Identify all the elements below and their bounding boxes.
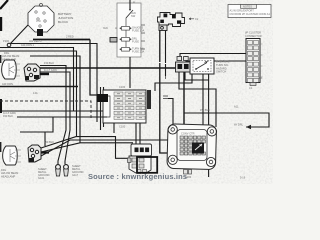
svg-text:440 ORN 1: 440 ORN 1: [21, 43, 35, 47]
notes box top right: [228, 5, 271, 18]
thick stub from lower headlamp connector: [41, 151, 49, 153]
wire DRL box to C100 right bar: [155, 74, 192, 91]
wire break mark: [157, 62, 162, 63]
svg-text:G101: G101: [38, 176, 45, 180]
svg-text:150 BLK: 150 BLK: [3, 114, 13, 118]
wire long y68 to big connector: [40, 68, 184, 138]
wire E y56: [30, 56, 80, 143]
wires C100 down to lamp check relay: [136, 123, 140, 144]
fuse block box: [110, 0, 145, 88]
svg-text:440 ORN: 440 ORN: [2, 82, 13, 86]
scan artifact left edge dash 3: [0, 99, 2, 113]
right side pins: [141, 25, 145, 49]
svg-text:FUSE: FUSE: [132, 39, 139, 43]
wire small connector to cluster y61: [186, 56, 246, 61]
wire from blob x159.8 down to big connector: [160, 31, 167, 154]
C100 bulkhead connector: [97, 85, 151, 129]
thick highlight rect on lamp check block: [137, 157, 157, 173]
bottom tabs: [137, 170, 141, 174]
wire small connector to cluster y55: [180, 54, 246, 57]
wire B y43.5: [11, 44, 97, 123]
svg-text:150 BLK: 150 BLK: [200, 108, 210, 112]
svg-text:HEADLAMP: HEADLAMP: [1, 174, 16, 178]
svg-text:2 RED: 2 RED: [66, 35, 74, 39]
svg-text:C2: C2: [195, 17, 199, 21]
fuse 3: [120, 46, 145, 53]
svg-text:A 30: A 30: [36, 20, 41, 23]
wire D y51: [0, 51, 77, 137]
headlamp upper connector: [24, 64, 40, 81]
wire y72: [40, 72, 70, 164]
headlamp upper: [2, 60, 20, 79]
headlamp lower connector: [28, 145, 41, 162]
svg-text:SW: SW: [131, 14, 136, 18]
wire from blob x165.5 down: [165, 31, 167, 77]
wires from small connector: [179, 72, 216, 127]
arrowhead: [246, 125, 251, 129]
big firewall connector: [167, 124, 217, 179]
svg-text:14A: 14A: [33, 91, 38, 95]
svg-text:A1 W/ DRL/EXPORT: A1 W/ DRL/EXPORT: [230, 8, 255, 12]
svg-text:G117: G117: [72, 173, 79, 177]
bottom stub joining long wire: [129, 57, 131, 88]
svg-text:Source : knwnrkgenius.ins: Source : knwnrkgenius.ins: [88, 172, 187, 181]
wire C y47.5: [0, 48, 74, 112]
svg-text:P100: P100: [3, 39, 10, 43]
wire below C100: [113, 123, 115, 133]
ground bolt right G117: [64, 165, 69, 176]
headlamp lower: [3, 146, 21, 165]
svg-text:BLOCK: BLOCK: [58, 20, 68, 24]
ignition switch: [126, 10, 133, 18]
hairpin wire loop left-mid: [17, 117, 107, 146]
svg-text:402 RED 2: 402 RED 2: [29, 39, 42, 43]
svg-text:FUSE 20A: FUSE 20A: [132, 49, 145, 53]
svg-text:A11: A11: [234, 105, 239, 109]
svg-text:SWITCH: SWITCH: [216, 70, 226, 74]
svg-text:CONNECTOR: CONNECTOR: [245, 34, 262, 38]
small connector under blob: [176, 57, 191, 73]
wire from DRL box x208.6 down: [208, 74, 210, 177]
wire A y40 thick: [33, 39, 90, 41]
svg-text:IGN: IGN: [103, 26, 108, 30]
scan artifact left edge dash 4: [0, 142, 1, 152]
connector symbol and wire to big connector top: [163, 76, 169, 99]
svg-text:W/ DRL: W/ DRL: [234, 123, 244, 127]
wire from DRL box x203 down: [202, 74, 204, 146]
fuse 2: [120, 36, 140, 43]
svg-text:CONV CTR: CONV CTR: [181, 132, 195, 136]
ground bolt left G101: [56, 165, 61, 176]
I/P cluster connector: [246, 39, 263, 91]
diag wires from lower headlamp connector: [41, 137, 128, 159]
svg-text:11 LT GRN: 11 LT GRN: [44, 68, 57, 72]
svg-text:150 BLK: 150 BLK: [44, 61, 54, 65]
thick wire y86: [0, 86, 78, 88]
svg-text:FUSE 10A: FUSE 10A: [132, 28, 145, 32]
scan artifact left edge dash 2: [0, 55, 1, 63]
svg-text:DRL/A DRL: DRL/A DRL: [216, 60, 230, 64]
svg-text:A: A: [133, 0, 135, 4]
svg-text:C100: C100: [119, 125, 126, 129]
svg-text:C100: C100: [119, 85, 126, 89]
u-turn wire to arrow: [216, 113, 269, 127]
connector P100: [7, 43, 11, 47]
ignition switch wire stub top: [129, 0, 131, 9]
wire down left of C100: [100, 87, 102, 130]
thick stub from upper headlamp connector: [40, 73, 49, 75]
svg-text:C1: C1: [249, 86, 253, 90]
scan artifact top-left corner: [0, 0, 8, 9]
battery junction block: [28, 4, 54, 37]
wire: diagonal from junction block to P100: [10, 25, 28, 44]
svg-text:NOTES: NOTES: [243, 5, 252, 9]
svg-text:C9 FROM I/P CLUSTER CONN A1: C9 FROM I/P CLUSTER CONN A1: [230, 12, 271, 16]
turn signal switch connector blob: [158, 13, 199, 31]
wire y111 into C100: [0, 110, 107, 112]
wire from upper headlamp y65.5: [40, 66, 66, 165]
dashed option wire y101: [0, 101, 91, 120]
svg-text:A11: A11: [258, 76, 263, 80]
wire down left of C100 b: [103, 87, 105, 127]
small connector left of fuse box: [110, 38, 117, 43]
svg-text:TURN SIG: TURN SIG: [216, 63, 228, 67]
svg-text:5-19: 5-19: [240, 176, 246, 180]
svg-text:I/P CLUSTER: I/P CLUSTER: [245, 31, 261, 35]
svg-text:HAZARD: HAZARD: [216, 66, 227, 70]
DRL module box: [190, 58, 214, 74]
svg-text:150 BLK: 150 BLK: [44, 140, 54, 144]
fuse 1: [120, 25, 145, 32]
scan artifact left edge dash 1: [0, 17, 2, 31]
lamp check connector block: [128, 144, 152, 174]
wire y115.5 link: [184, 112, 216, 114]
